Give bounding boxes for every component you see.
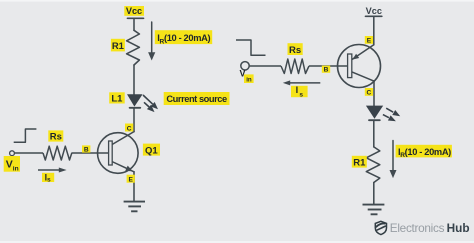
svg-text:B: B [84, 146, 89, 153]
svg-text:s: s [299, 91, 303, 98]
svg-text:Rs: Rs [289, 45, 301, 56]
svg-text:C: C [127, 125, 132, 132]
svg-text:Vcc: Vcc [126, 6, 142, 16]
svg-text:E: E [367, 38, 372, 45]
svg-text:B: B [324, 67, 329, 74]
svg-text:C: C [367, 90, 372, 97]
svg-text:L1: L1 [111, 94, 123, 105]
svg-text:in: in [246, 76, 252, 83]
svg-text:Vcc: Vcc [366, 6, 382, 16]
svg-text:E: E [128, 177, 133, 184]
svg-text:Q1: Q1 [145, 145, 158, 156]
svg-text:Hub: Hub [447, 221, 470, 235]
svg-text:Electronics: Electronics [390, 221, 445, 235]
svg-text:Rs: Rs [50, 132, 62, 143]
svg-text:V: V [6, 159, 13, 171]
svg-text:I: I [296, 85, 299, 95]
svg-text:R1: R1 [112, 41, 125, 52]
svg-text:Current source: Current source [166, 94, 227, 104]
svg-text:in: in [13, 166, 19, 173]
svg-text:R1: R1 [353, 157, 366, 168]
